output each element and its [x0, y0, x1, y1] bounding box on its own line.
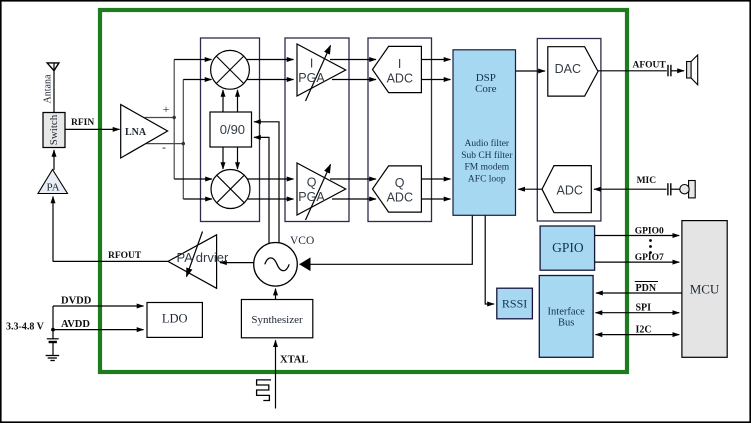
svg-text:LDO: LDO [162, 312, 188, 326]
svg-text:Audio filter: Audio filter [465, 138, 510, 149]
svg-text:Q: Q [395, 176, 405, 190]
svg-text:MIC: MIC [637, 176, 657, 186]
svg-text:ADC: ADC [387, 191, 413, 205]
svg-text:FM modem: FM modem [464, 163, 509, 173]
svg-text:VCO: VCO [290, 235, 314, 247]
svg-text:PDN: PDN [636, 283, 657, 294]
svg-text:LNA: LNA [125, 127, 147, 138]
svg-text:-: - [162, 140, 166, 154]
svg-text:AFC loop: AFC loop [468, 174, 506, 184]
svg-text:PA: PA [46, 182, 59, 194]
svg-text:Synthesizer: Synthesizer [251, 314, 303, 326]
svg-text:GPIO0: GPIO0 [635, 227, 664, 237]
svg-text:ADC: ADC [556, 183, 582, 197]
svg-text:I2C: I2C [636, 325, 652, 336]
svg-text:AFOUT: AFOUT [633, 60, 667, 70]
svg-text:GPIO7: GPIO7 [635, 253, 664, 263]
svg-text:Interface: Interface [548, 307, 586, 318]
svg-text:I: I [398, 57, 401, 71]
svg-text:SPI: SPI [636, 303, 652, 314]
svg-text:+: + [163, 102, 170, 116]
svg-text:PGA: PGA [298, 190, 325, 204]
svg-text:3.3-4.8 V: 3.3-4.8 V [6, 322, 45, 333]
svg-text:I: I [310, 57, 313, 71]
svg-text:Q: Q [307, 176, 317, 190]
svg-text:RFIN: RFIN [71, 118, 94, 128]
svg-text:Core: Core [475, 83, 497, 95]
svg-text:GPIO: GPIO [552, 240, 584, 255]
svg-text:0/90: 0/90 [220, 122, 245, 137]
svg-text:DVDD: DVDD [61, 296, 92, 307]
svg-text:Sub CH filter: Sub CH filter [461, 150, 513, 161]
svg-text:RSSI: RSSI [502, 297, 527, 311]
svg-text:ADC: ADC [387, 72, 413, 86]
svg-text:Bus: Bus [558, 318, 574, 329]
svg-text:Switch: Switch [48, 114, 60, 145]
svg-text:XTAL: XTAL [280, 355, 308, 366]
svg-text:RFOUT: RFOUT [108, 251, 142, 261]
svg-text:MCU: MCU [690, 282, 720, 297]
svg-text:PGA: PGA [298, 71, 325, 85]
svg-text:PA drvier: PA drvier [177, 250, 229, 265]
svg-text:AVDD: AVDD [61, 319, 90, 330]
svg-text:DAC: DAC [555, 62, 581, 76]
svg-text:Antana: Antana [42, 74, 53, 103]
